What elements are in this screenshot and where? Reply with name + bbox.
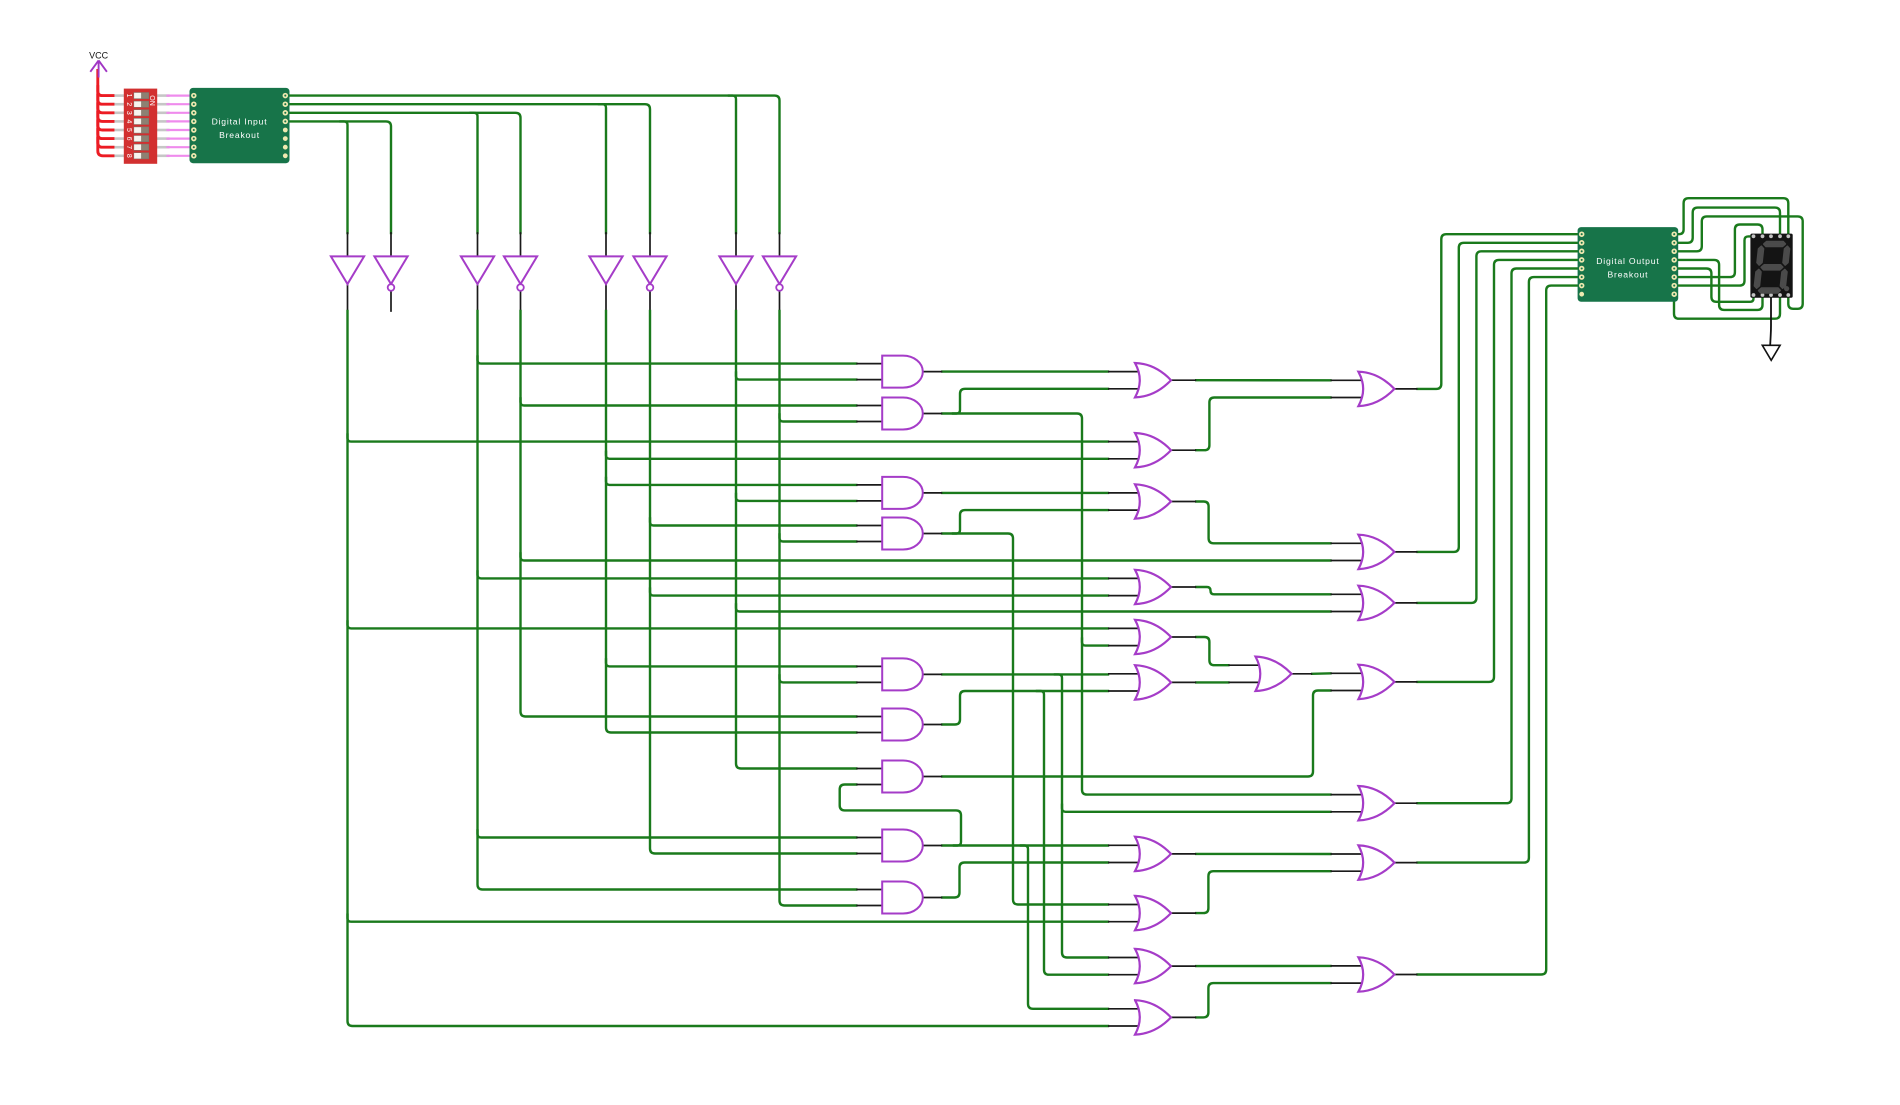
svg-text:Breakout: Breakout bbox=[1608, 270, 1649, 280]
svg-text:Breakout: Breakout bbox=[219, 130, 260, 140]
svg-text:VCC: VCC bbox=[89, 51, 109, 61]
svg-text:Digital Output: Digital Output bbox=[1596, 256, 1659, 266]
svg-text:Digital Input: Digital Input bbox=[212, 117, 268, 127]
svg-text:5: 5 bbox=[125, 128, 132, 132]
svg-text:8: 8 bbox=[125, 154, 132, 158]
svg-text:1: 1 bbox=[125, 94, 132, 98]
svg-text:6: 6 bbox=[125, 137, 132, 141]
svg-text:2: 2 bbox=[125, 102, 132, 106]
svg-text:4: 4 bbox=[125, 119, 132, 123]
svg-text:3: 3 bbox=[125, 111, 132, 115]
svg-text:7: 7 bbox=[125, 145, 132, 149]
svg-text:ON: ON bbox=[148, 95, 155, 106]
